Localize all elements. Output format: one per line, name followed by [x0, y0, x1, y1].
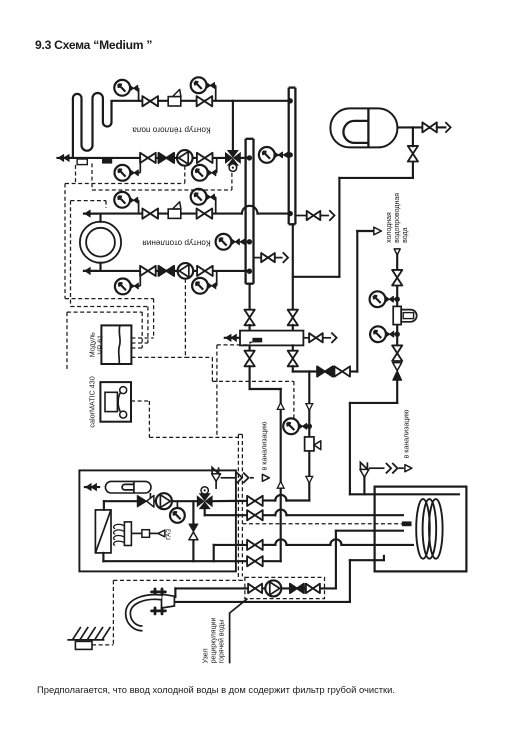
safety valve at tank	[360, 469, 369, 477]
flow arrow down on branch	[306, 404, 313, 411]
valve 2 on radiator supply	[197, 209, 213, 219]
control wire floor 3-way valve	[231, 173, 233, 190]
cold water inlet connector triangle	[374, 227, 382, 235]
svg-text:в канализацию: в канализацию	[262, 422, 269, 471]
control wire to ground and recirculation	[113, 579, 245, 581]
wire bypass from floor supply to 3-way valve	[232, 101, 234, 150]
faucet handle top	[152, 589, 166, 595]
svg-text:вода: вода	[402, 227, 409, 242]
valve on cold water inlet	[392, 270, 402, 286]
burner flames	[114, 524, 125, 528]
plate heat exchanger	[240, 331, 303, 346]
thermometer radiator return left	[139, 271, 141, 286]
check valve on cold water line	[393, 363, 402, 371]
wire outer manifold down to expansion line	[292, 224, 294, 310]
valve 2 on radiator return	[197, 266, 213, 276]
node floor 3-way to inner manifold	[247, 155, 252, 160]
drain valve at heat exchanger	[303, 337, 308, 339]
sensor on floor return	[102, 159, 112, 164]
svg-text:водопроводная: водопроводная	[394, 193, 401, 243]
gas connector triangle	[158, 530, 165, 537]
wire floor-heating return pipe	[71, 157, 227, 159]
wire cold water to tank	[350, 402, 397, 404]
bridge of radiator supply over collector	[242, 206, 258, 214]
flow arrow up on boiler riser	[277, 403, 284, 410]
wire heat exchanger right to DHW line	[292, 366, 294, 371]
wire floor-heating supply pipe	[112, 100, 140, 102]
control wire radiator supply sensor	[105, 201, 107, 208]
flow switch sensor on floor return	[77, 159, 87, 165]
expansion tank	[330, 108, 397, 147]
ground symbol	[67, 639, 104, 641]
control wire bus B vertical	[70, 201, 72, 307]
node radiator supply to outer manifold	[288, 211, 293, 216]
arrow to consumers radiator supply	[84, 209, 91, 217]
wire check valve branch in boiler	[192, 501, 194, 524]
svg-text:Контур отопления: Контур отопления	[142, 239, 210, 248]
tank coil ellipse 3	[429, 499, 443, 559]
boiler heat exchanger	[95, 510, 111, 553]
wire radiator stubs	[99, 214, 101, 222]
svg-text:Модуль: Модуль	[89, 332, 96, 357]
manometer cold water upper	[370, 291, 386, 307]
valve below heat exchanger left	[249, 345, 251, 350]
thermometer T2 floor supply right	[215, 92, 217, 101]
boiler 3-way valve	[197, 495, 205, 507]
faucet body	[162, 594, 175, 608]
control wire floor sensor to bus	[75, 165, 77, 184]
check valve vertical in boiler	[189, 524, 198, 532]
valve on radiator supply	[142, 209, 158, 219]
flow arrow down 2 on branch	[306, 476, 313, 483]
boiler pump	[156, 493, 172, 509]
valve on floor return	[140, 153, 156, 163]
wire hot water line to faucet	[174, 601, 350, 603]
node floor supply to outer manifold	[288, 98, 293, 103]
wire recirculation line	[335, 531, 337, 589]
wire capsule connection	[149, 493, 151, 501]
valve recirculation right	[306, 584, 320, 593]
valve on radiator return	[140, 266, 156, 276]
faucet stub	[174, 588, 176, 597]
boiler safety valve	[212, 474, 221, 482]
safety group stub at tank	[363, 477, 365, 494]
valve 2 on floor return	[197, 153, 213, 163]
balancing valve on floor supply	[168, 97, 181, 106]
control wire radiator pump to VR61	[184, 279, 186, 358]
arrow to consumers at heat exchanger	[225, 334, 232, 342]
manometer on boiler feed branch	[283, 418, 299, 434]
control wire calorMATIC to bus	[131, 400, 149, 402]
wire heat exchanger left to boiler riser	[249, 366, 251, 389]
balancing valve on radiator supply	[168, 209, 181, 218]
boiler casing	[79, 470, 236, 571]
svg-text:холодная: холодная	[386, 212, 393, 243]
pump P2 radiator circuit	[178, 263, 194, 279]
wire expansion line to riser	[293, 276, 340, 278]
recirculation unit dashed box	[245, 577, 325, 598]
wire expansion tank connection	[397, 126, 421, 128]
valve recirculation left	[248, 584, 262, 593]
check valve on floor return	[159, 153, 175, 163]
faucet spout	[128, 597, 162, 628]
gas line with valve	[131, 532, 142, 534]
svg-text:Предполагается, что ввод холод: Предполагается, что ввод холодной воды в…	[37, 684, 395, 695]
tank coil ellipse 1	[416, 499, 430, 559]
wire coil supply from boiler to tank	[262, 514, 275, 516]
manometer cold water lower	[370, 326, 386, 342]
thermometer floor return right	[216, 158, 218, 173]
hot water tank	[375, 487, 467, 572]
valve above heat exchanger left	[245, 310, 255, 326]
control bus down boiler side	[237, 434, 239, 580]
3-way mixing valve floor circuit	[225, 152, 233, 164]
valve above heat exchanger right	[288, 310, 298, 326]
wire radiator supply pipe	[84, 213, 242, 215]
svg-text:Узел: Узел	[202, 648, 209, 663]
leader line recirculation label	[230, 599, 248, 664]
valve on boiler return	[247, 556, 263, 566]
wire boiler return line	[102, 553, 104, 561]
thermometer floor return left	[139, 158, 141, 173]
svg-text:горячей воды: горячей воды	[217, 620, 225, 664]
actuator of boiler 3-way valve	[201, 487, 208, 494]
wire hot water riser from tank	[349, 560, 351, 602]
wire boiler riser	[280, 389, 282, 561]
sensor inside heat exchanger	[252, 338, 262, 343]
boiler manometer	[176, 501, 178, 508]
valve on coil supply at boiler	[247, 510, 263, 520]
svg-text:ГАЗ: ГАЗ	[166, 529, 173, 540]
check valve on radiator return	[159, 266, 175, 276]
svg-text:calorMATIC 430: calorMATIC 430	[87, 376, 96, 427]
valve on expansion tank line	[408, 146, 418, 162]
radiator circle	[80, 222, 121, 263]
arrow to consumers floor return	[58, 154, 65, 162]
pump P1 floor circuit	[177, 150, 193, 166]
control wire bus A to VR61	[65, 298, 154, 300]
flow arrow up 2 on boiler riser	[277, 481, 284, 488]
actuator of floor 3-way valve	[229, 164, 237, 172]
wire cold water inside tank	[375, 493, 459, 495]
check valve recirculation	[290, 584, 304, 593]
flue arrow at boiler	[85, 483, 92, 491]
safety discharge to sewer at tank	[369, 467, 385, 469]
module VR 61 box	[101, 325, 131, 364]
burner plate	[124, 522, 131, 546]
thermometer on inner manifold	[244, 241, 247, 243]
drain valve on inner manifold	[254, 257, 261, 259]
faucet handle bottom	[152, 608, 166, 614]
valve on boiler feed	[247, 496, 263, 506]
fill-drain valve at expansion tank	[422, 122, 436, 132]
thermometer T1 floor supply left	[138, 92, 140, 101]
wire boiler 3-way right port	[213, 500, 236, 502]
water meter	[393, 306, 401, 324]
control wire bus A vertical	[64, 184, 66, 299]
control wire heat exchanger sensor	[216, 345, 218, 438]
recirculation pump	[265, 580, 281, 596]
thermometer on outer manifold	[287, 154, 290, 156]
svg-text:Контур тёплого пола: Контур тёплого пола	[132, 126, 211, 135]
svg-text:рециркуляции: рециркуляции	[210, 618, 217, 664]
wire radiator return pipe	[84, 270, 247, 272]
collector manifold outer (supply)	[288, 88, 290, 225]
thermometer radiator supply left	[138, 205, 140, 214]
node radiator return to inner manifold	[247, 269, 252, 274]
wire tank bottom connection	[350, 559, 384, 561]
collector manifold inner (return)	[244, 139, 246, 284]
wire branch down from DHW cold feed	[308, 372, 310, 438]
wire boiler 3-way bottom port to coil supply	[204, 509, 206, 515]
boiler safety discharge to sewer	[215, 481, 217, 489]
cold water start triangle	[394, 249, 400, 255]
svg-text:в канализацию: в канализацию	[403, 410, 410, 459]
control wire floor pump down	[184, 166, 186, 184]
valve 2 on cold water line	[392, 345, 402, 361]
svg-text:9.3 Схема “Medium ”: 9.3 Схема “Medium ”	[35, 38, 152, 52]
valve on coil return at boiler	[247, 540, 263, 550]
tank coil ellipse 2	[423, 499, 437, 559]
control wire bus A horizontal	[65, 183, 185, 185]
check valve on DHW cold feed	[317, 366, 333, 376]
wire recirculation into tank	[336, 530, 403, 532]
thermometer radiator return right	[216, 271, 218, 286]
wire inner manifold down to heat exchanger	[249, 284, 251, 310]
wire coil return from tank	[262, 544, 275, 546]
check valve in boiler	[137, 495, 146, 507]
controller calorMATIC 430 box	[100, 382, 131, 422]
boiler expansion capsule	[105, 481, 151, 493]
control wire bus B to VR61	[71, 306, 148, 308]
control wire VR61 to DHW sensor	[185, 356, 212, 358]
sensor dashed line in tank	[242, 523, 402, 525]
pressure reducer on boiler feed	[305, 437, 314, 451]
valve on floor supply	[142, 96, 158, 106]
wire boiler flow line	[103, 501, 105, 510]
valve 2 on floor supply	[197, 96, 213, 106]
thermometer radiator supply right	[215, 205, 217, 214]
valve below heat exchanger right	[292, 345, 294, 350]
valve on DHW cold feed	[334, 366, 350, 376]
control wire bus C to VR61	[67, 311, 142, 313]
svg-text:VR 61: VR 61	[97, 335, 104, 355]
wire boiler feed into boiler	[262, 499, 275, 501]
wire cold water line down	[396, 255, 398, 270]
wire cold water connector riser	[356, 231, 358, 372]
wire coil return junction	[213, 545, 215, 561]
arrow from consumers radiator return	[84, 267, 91, 275]
drain valve on outer manifold	[295, 215, 306, 217]
serpentine floor-heating coil	[73, 93, 112, 157]
